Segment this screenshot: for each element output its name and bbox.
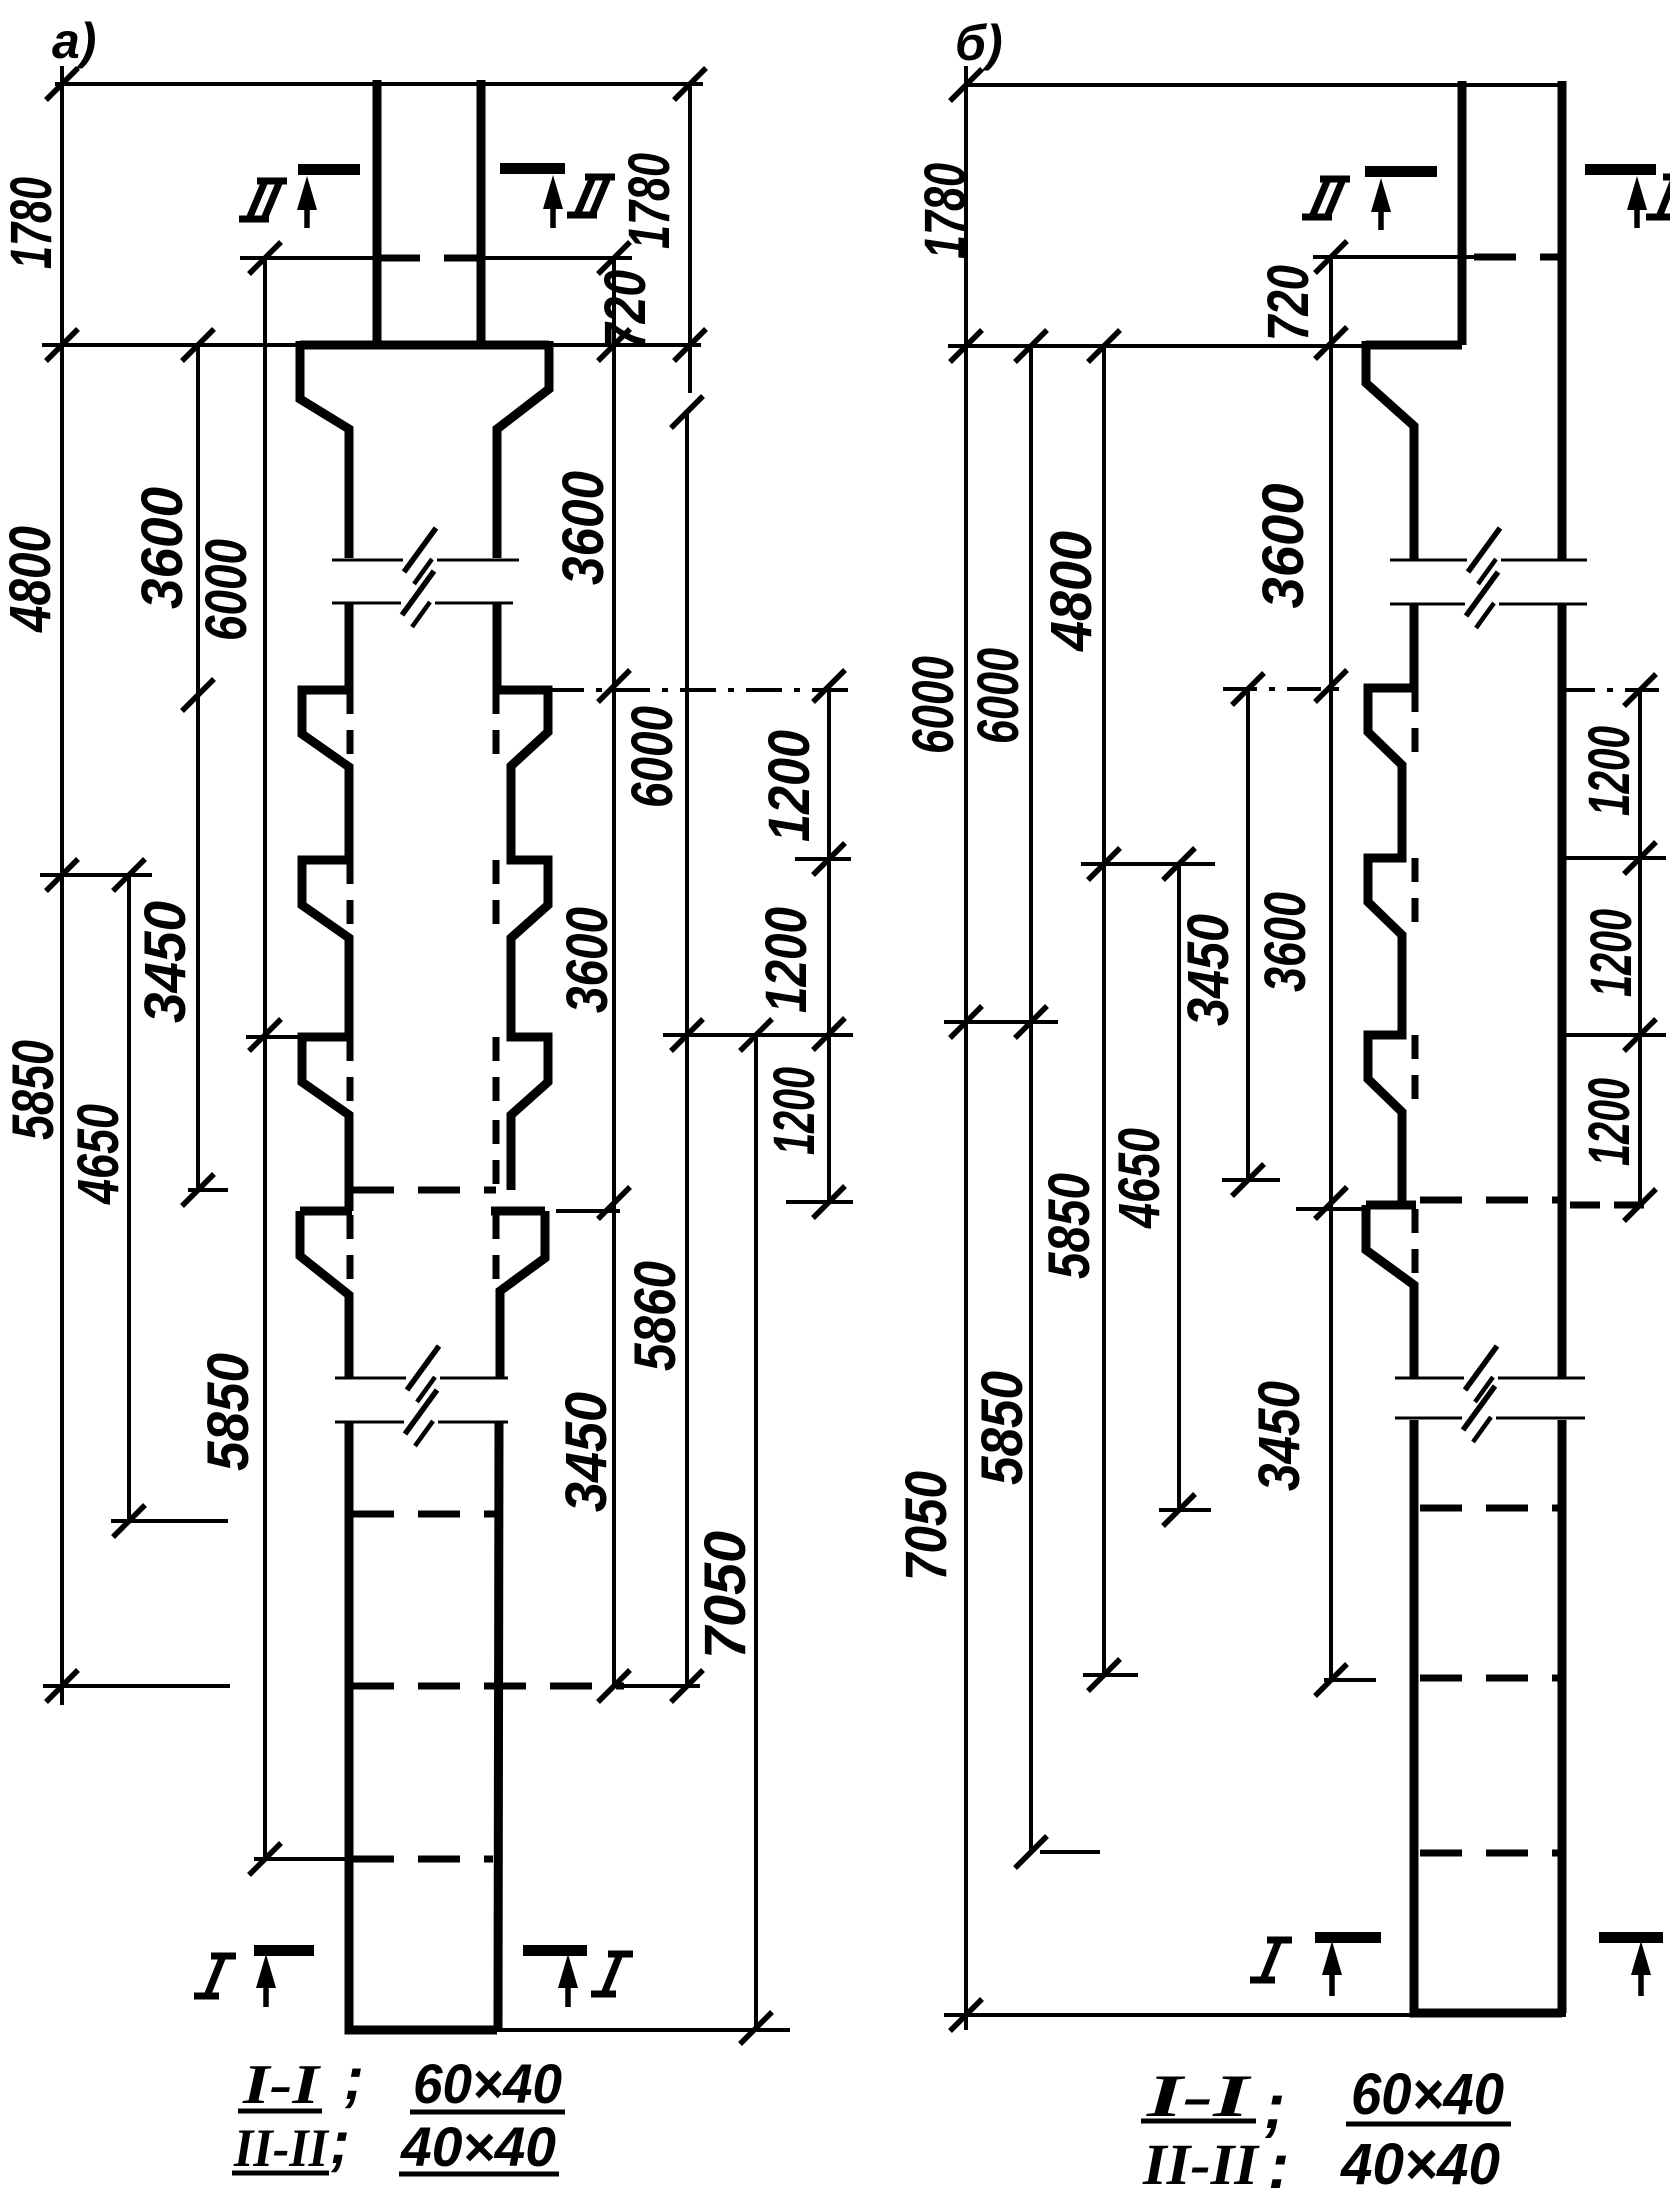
svg-text:5850: 5850	[970, 1371, 1035, 1485]
svg-text:4800: 4800	[1039, 531, 1104, 652]
svg-text:60×40: 60×40	[1351, 2062, 1504, 2127]
svg-text:60×40: 60×40	[413, 2052, 562, 2115]
svg-text:II-II: II-II	[233, 2118, 330, 2178]
svg-text:1780: 1780	[0, 177, 64, 269]
svg-text:1200: 1200	[762, 1067, 827, 1155]
svg-text:6000: 6000	[620, 706, 685, 808]
svg-text:7050: 7050	[894, 1471, 959, 1581]
svg-text:I-I: I-I	[242, 2054, 322, 2116]
svg-text:4650: 4650	[66, 1104, 131, 1205]
svg-text:а): а)	[52, 13, 96, 69]
svg-text:5850: 5850	[196, 1353, 261, 1471]
svg-text:3450: 3450	[1176, 914, 1241, 1026]
svg-text:5850: 5850	[1, 1040, 66, 1140]
svg-text:1200: 1200	[757, 730, 822, 842]
svg-text:1780: 1780	[913, 163, 978, 259]
svg-text:40×40: 40×40	[1340, 2132, 1500, 2188]
svg-text:40×40: 40×40	[400, 2115, 556, 2178]
svg-text:4650: 4650	[1107, 1128, 1172, 1229]
svg-text:6000: 6000	[966, 648, 1031, 744]
svg-text:II-II: II-II	[1142, 2132, 1261, 2188]
svg-text:1200: 1200	[1577, 726, 1642, 816]
svg-text:3600: 3600	[1253, 892, 1318, 992]
svg-text:3450: 3450	[1247, 1381, 1312, 1491]
svg-text:3450: 3450	[554, 1392, 619, 1512]
svg-text:7050: 7050	[693, 1531, 758, 1659]
svg-text:;: ;	[344, 2045, 364, 2112]
svg-text:1200: 1200	[1577, 1078, 1642, 1166]
svg-text:4800: 4800	[0, 526, 63, 633]
svg-text:1200: 1200	[1579, 909, 1644, 997]
svg-text:1200: 1200	[754, 907, 819, 1013]
svg-text:6000: 6000	[194, 539, 259, 641]
svg-text:6000: 6000	[901, 656, 966, 754]
svg-text:720: 720	[593, 270, 658, 350]
svg-text:3450: 3450	[133, 901, 198, 1023]
svg-text:;: ;	[330, 2109, 350, 2176]
svg-text:3600: 3600	[130, 487, 195, 609]
svg-text:3600: 3600	[555, 907, 620, 1013]
svg-text:3600: 3600	[551, 471, 616, 585]
svg-text:б): б)	[955, 15, 1003, 71]
svg-text:1780: 1780	[617, 153, 682, 249]
svg-text:5850: 5850	[1037, 1173, 1102, 1279]
svg-text:;: ;	[1268, 2130, 1289, 2188]
svg-text:5860: 5860	[623, 1261, 688, 1371]
svg-text:720: 720	[1256, 265, 1321, 341]
svg-text:3600: 3600	[1251, 484, 1316, 609]
